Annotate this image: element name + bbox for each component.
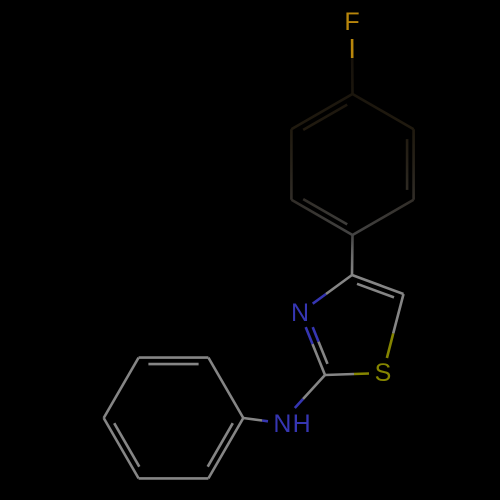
wire ring2 double right-LR inner (208, 423, 233, 467)
wire bond C2-NH (#7A7A7A half) (303, 375, 325, 399)
wire ring1 edge LR-bottom (353, 200, 414, 235)
wire bond C2=N3 inner (#3636B2 half) (313, 327, 319, 342)
wire ring1 edge bottom-LL (291, 200, 352, 235)
wire bond C2=N3 inner (#7A7A7A half) (319, 342, 328, 364)
wire ring2 edge UL-UR (139, 356, 209, 359)
wire ring2 edge LL-left (104, 418, 139, 478)
wire bond S1-C2 (#7A7A7A half) (325, 374, 354, 375)
wire ring1 double UL-top inner (303, 105, 347, 130)
wire bond C5-S1 (#7A7A7A half) (393, 294, 403, 334)
wire bond C2=N3 (#7A7A7A half) (313, 344, 326, 375)
wire bond C2-NH (#3636B2 half) (295, 399, 303, 408)
wire ring1 edge LL-UL (290, 129, 293, 200)
wire ring2 edge LR-LL (139, 477, 209, 480)
wire bond C4=C5 (352, 275, 404, 294)
svg-text:S: S (375, 359, 392, 387)
wire bond C4=C5 inner (357, 284, 394, 298)
wire ring2 double UL-UR inner (148, 363, 198, 366)
wire bond NH-ring2 (#7A7A7A half) (243, 418, 262, 421)
wire bond F-C1' (#7A7A7A half) (351, 58, 354, 94)
wire ring1 edge UL-top (291, 94, 352, 129)
wire ring2 edge UR-right (208, 358, 243, 418)
wire ring1 edge top-UR (353, 94, 414, 129)
wire bond ring1-C4 (351, 235, 354, 275)
wire ring1 double UR-LR inner (406, 139, 409, 190)
wire bond NH-ring2 (#3636B2 half) (262, 419, 268, 422)
wire bond N3-C4 (#7A7A7A half) (326, 275, 352, 294)
wire ring2 edge left-UL (104, 358, 139, 418)
wire bond N3-C4 (#3636B2 half) (313, 294, 326, 304)
wire bond C2=N3 (#3636B2 half) (306, 327, 313, 344)
wire bond C5-S1 (#858500 half) (387, 334, 393, 359)
wire ring1 edge UR-LR (412, 129, 415, 200)
svg-text:N: N (291, 299, 309, 327)
wire ring2 double LL-left inner (114, 423, 139, 467)
wire ring2 edge right-LR (208, 418, 243, 478)
wire bond F-C1' (#B8860B half) (351, 39, 354, 58)
svg-text:NH: NH (273, 410, 310, 438)
wire bond S1-C2 (#858500 half) (354, 372, 369, 375)
svg-text:F: F (344, 8, 359, 36)
wire ring1 double bottom-LL inner (303, 199, 347, 224)
